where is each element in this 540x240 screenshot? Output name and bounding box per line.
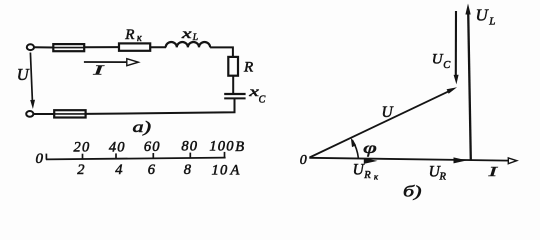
svg-text:R: R (124, 27, 134, 43)
label Rk (124, 27, 142, 44)
svg-text:20: 20 (74, 140, 91, 156)
fuse F2 (bottom) (54, 110, 85, 117)
wire: inductor to top-right corner, down to R (210, 47, 233, 57)
svg-text:C: C (259, 94, 266, 105)
wire: top terminal to fuse F1 (34, 46, 54, 48)
svg-text:10: 10 (212, 162, 229, 178)
svg-text:R: R (243, 60, 253, 76)
inductor xL (4 humps) (166, 42, 210, 47)
volt scale numbers (74, 139, 235, 156)
ruler tick 0 (45, 154, 47, 160)
label R (243, 60, 253, 76)
svg-text:4: 4 (115, 162, 123, 178)
terminal (input, bottom-left) (26, 111, 33, 117)
label В (volts) (235, 139, 244, 155)
label I (91, 62, 106, 77)
ruler tick 20 (82, 154, 84, 159)
svg-text:U: U (17, 65, 30, 84)
label UC (432, 51, 451, 70)
svg-text:C: C (443, 60, 451, 71)
svg-text:2: 2 (77, 162, 85, 178)
label U (17, 65, 30, 84)
svg-text:100: 100 (209, 139, 234, 155)
axis I (horizontal, open arrowhead) (309, 158, 517, 164)
ampere scale numbers (77, 162, 228, 179)
svg-text:U: U (476, 5, 490, 24)
phasor UC (downward, arrow down) (454, 11, 459, 84)
label 0 (ruler origin) (36, 151, 44, 167)
svg-text:к: к (137, 33, 142, 44)
ruler tick 60 (152, 153, 154, 158)
svg-text:φ: φ (363, 140, 377, 157)
phasor URk arrowhead on axis (364, 158, 378, 164)
phasor UR arrowhead on axis (454, 157, 468, 163)
ruler tick 80 (189, 153, 191, 158)
angle phi arc with arrowhead (351, 138, 359, 159)
wire: Rk to inductor (150, 46, 166, 48)
label UR (429, 164, 447, 183)
svg-text:В: В (235, 139, 244, 155)
svg-text:U: U (382, 104, 395, 121)
capacitor xC (224, 94, 245, 98)
ruler tick 40 (115, 153, 117, 158)
svg-text:40: 40 (109, 139, 126, 155)
label O (phasor origin) (300, 153, 307, 168)
wire: fuse F1 to resistor Rk (84, 46, 119, 48)
svg-text:а): а) (133, 119, 152, 136)
svg-text:x: x (248, 84, 259, 99)
terminal (input, top-left) (27, 44, 34, 50)
label URk (353, 161, 379, 181)
wire: fuse F2 to bottom terminal (33, 113, 54, 115)
svg-text:x: x (180, 26, 191, 41)
scale ruler main line (46, 158, 226, 160)
svg-text:0: 0 (36, 151, 44, 167)
label xC (248, 84, 266, 105)
svg-text:0: 0 (300, 153, 307, 168)
svg-text:8: 8 (184, 162, 192, 178)
label U (phasor) (382, 104, 395, 121)
svg-text:U: U (432, 51, 444, 67)
label xL (180, 26, 198, 43)
phasor U (resultant) (310, 87, 458, 157)
wire: R to capacitor (232, 76, 234, 93)
ruler tick 100 (224, 152, 226, 158)
svg-text:6: 6 (148, 162, 156, 178)
svg-text:R: R (439, 171, 447, 182)
arrow I (current direction) (84, 59, 138, 66)
label UL (476, 5, 496, 27)
fuse F1 (top) (53, 44, 84, 51)
label А (amperes) (230, 163, 240, 179)
svg-text:L: L (192, 33, 198, 43)
svg-text:б): б) (403, 183, 422, 200)
arrow U (voltage between terminals) (30, 53, 35, 110)
label phi (363, 140, 377, 157)
svg-text:R: R (363, 170, 371, 181)
phasor UL (vertical, arrow up) (465, 4, 470, 161)
label б) (403, 183, 422, 200)
svg-text:60: 60 (144, 139, 161, 155)
label а) (133, 119, 152, 136)
svg-text:L: L (488, 16, 495, 28)
resistor Rk (119, 43, 150, 50)
label I (axis) (487, 165, 499, 180)
svg-text:80: 80 (181, 139, 198, 155)
svg-text:А: А (230, 163, 240, 179)
wire: capacitor down, bottom-right corner, bottom wire to fuse F2 (86, 99, 235, 114)
resistor R (vertical) (228, 57, 238, 76)
